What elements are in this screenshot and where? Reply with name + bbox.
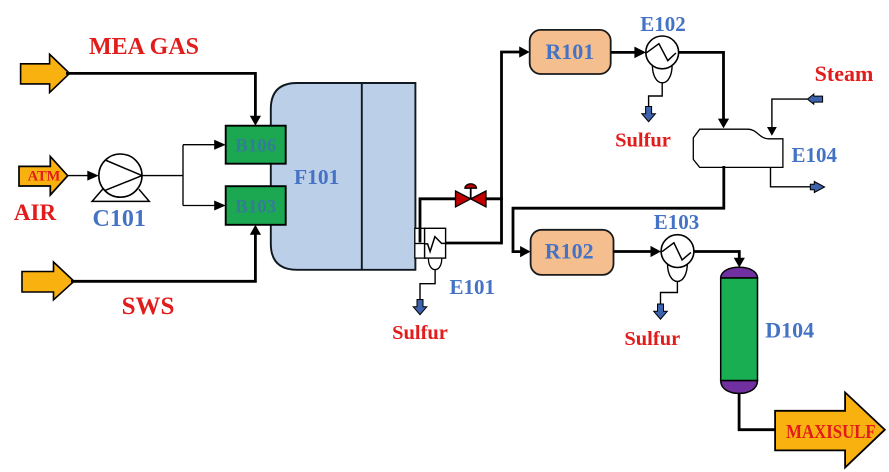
wire SWS line to B103 — [71, 234, 255, 281]
svg-text:R102: R102 — [545, 238, 594, 263]
condenser E103 — [661, 235, 694, 268]
svg-text:E104: E104 — [791, 143, 837, 167]
svg-text:C101: C101 — [93, 206, 146, 232]
wire compressor outlet split to burners — [142, 145, 215, 206]
block arrow sulfur outlet E101 — [413, 300, 427, 315]
arrowhead into compressor — [87, 171, 99, 181]
separator D104 — [721, 267, 758, 393]
steam generator E104 — [693, 129, 783, 167]
wire valve bypass — [420, 199, 457, 243]
wire E104 to R102 — [513, 166, 724, 252]
reactor R101 — [530, 30, 611, 74]
valve — [456, 184, 487, 207]
condenser E103 coil — [662, 243, 691, 260]
wire MEA gas line to B106 — [66, 73, 255, 116]
arrowhead into R101 — [519, 46, 530, 57]
arrowhead into E102 — [634, 47, 646, 59]
svg-text:B103: B103 — [235, 197, 276, 218]
wire E103 sulfur drain — [661, 281, 678, 304]
arrowhead into D104 top — [734, 258, 745, 268]
svg-text:SWS: SWS — [122, 293, 175, 320]
compressor C101 — [92, 154, 149, 201]
block arrow MEA GAS inlet — [21, 54, 70, 92]
block arrow SWS inlet — [22, 262, 74, 300]
block arrow MAXISULF outlet — [775, 392, 885, 467]
arrowhead into B106 left — [214, 140, 226, 150]
condenser E101 body — [425, 228, 446, 258]
arrowhead steam into E104 — [767, 127, 777, 136]
condenser E101 coil — [425, 237, 446, 252]
arrowhead into R102 — [520, 246, 531, 257]
block arrow ATM inlet — [19, 156, 68, 195]
svg-text:E102: E102 — [640, 12, 686, 36]
wire E101 sulfur drain — [420, 270, 435, 300]
block arrow sulfur outlet E102 — [642, 107, 656, 122]
svg-text:F101: F101 — [294, 165, 339, 189]
wire E102 to E104 — [678, 52, 723, 119]
arrowhead into E104 top — [718, 119, 729, 129]
wire R102 to E103 — [614, 250, 652, 253]
burner B106 — [226, 126, 286, 164]
svg-text:E103: E103 — [654, 210, 700, 234]
condenser E101 boot — [428, 258, 441, 270]
arrowhead into E103 — [651, 246, 662, 257]
svg-text:R101: R101 — [545, 39, 594, 64]
svg-text:Sulfur: Sulfur — [624, 328, 680, 350]
condenser E101 flange — [415, 228, 425, 258]
svg-text:Sulfur: Sulfur — [392, 322, 448, 344]
svg-text:AIR: AIR — [14, 200, 57, 225]
svg-text:MEA GAS: MEA GAS — [89, 34, 199, 60]
condenser E102 boot — [652, 66, 672, 83]
wire R101 to E102 — [611, 51, 637, 54]
svg-text:ATM: ATM — [28, 169, 61, 185]
wire ATM arrow to compressor — [68, 175, 88, 177]
condenser E102 — [646, 36, 679, 69]
condenser E102 coil — [646, 44, 676, 61]
svg-text:E101: E101 — [450, 275, 496, 299]
wire E101 outlet to riser — [446, 242, 502, 245]
svg-text:B106: B106 — [235, 136, 276, 157]
svg-text:Steam: Steam — [815, 61, 874, 86]
arrowhead into B103 left — [214, 201, 226, 211]
arrowhead into B106 top — [250, 116, 261, 126]
burner B103 — [226, 186, 286, 225]
block arrow steam inlet — [807, 94, 822, 104]
furnace F101 — [271, 83, 416, 270]
svg-text:Sulfur: Sulfur — [615, 130, 671, 152]
block arrow sulfur outlet E103 — [654, 304, 668, 319]
wire E104 condensate outlet — [771, 167, 811, 186]
block arrow E104 outlet — [810, 182, 824, 193]
svg-text:D104: D104 — [765, 318, 814, 343]
reactor R102 — [531, 230, 614, 275]
wire E103 to D104 — [694, 252, 739, 259]
wire D104 to MAXISULF — [739, 393, 774, 430]
wire riser to R101 — [502, 52, 520, 244]
wire E102 sulfur drain — [649, 82, 663, 107]
arrowhead into B103 bottom — [250, 225, 261, 235]
condenser E103 boot — [668, 264, 688, 281]
wire steam line into E104 — [772, 99, 808, 127]
svg-text:MAXISULF: MAXISULF — [786, 421, 876, 443]
